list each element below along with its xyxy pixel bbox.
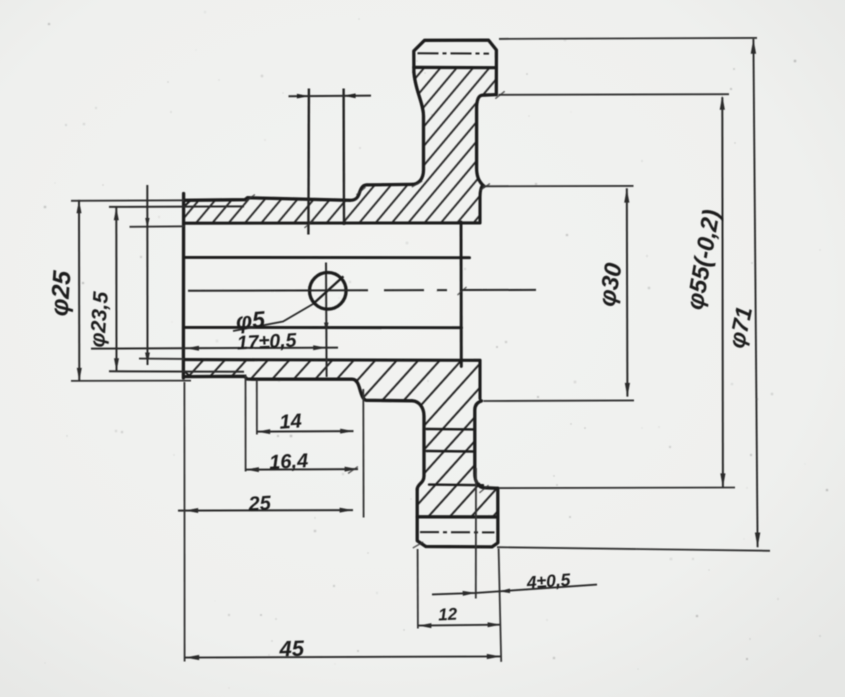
svg-text:12: 12 bbox=[438, 604, 458, 624]
bore end wall bbox=[460, 222, 463, 367]
dim line 12 bbox=[418, 624, 501, 627]
bore bottom extension to left bbox=[139, 358, 184, 360]
rim left face ext down bbox=[417, 549, 419, 629]
section hatching: upper wall, web and rim underside bbox=[184, 68, 496, 223]
hole centre line vertical bbox=[325, 263, 328, 378]
dia55 ext bottom bbox=[499, 487, 735, 490]
svg-text:4±0,5: 4±0,5 bbox=[525, 569, 571, 592]
lower web foot line bbox=[429, 483, 483, 486]
dim line dia25 bbox=[78, 200, 80, 381]
dim line 45 bbox=[184, 656, 501, 657]
lower web crossing line b bbox=[427, 450, 475, 453]
bore top line bbox=[184, 221, 480, 224]
radial hole left edge in wall bbox=[307, 89, 310, 235]
stray sketch tick marks bbox=[245, 91, 505, 548]
dim line bore bbox=[146, 185, 148, 365]
bore bottom line bbox=[184, 358, 480, 362]
dia55 shoulder face upper bbox=[477, 95, 497, 187]
upper rim pitch dash-dot bbox=[418, 52, 490, 54]
lower outer profile: thread dia, step, ramp bbox=[184, 376, 412, 401]
dim line 17+-0.5 bbox=[91, 348, 338, 349]
dim line dia30 bbox=[626, 188, 629, 396]
left end face of hub bbox=[182, 194, 186, 379]
slash through circle bbox=[313, 276, 343, 304]
upper rim outline with chamfers bbox=[414, 40, 497, 95]
thread minor line upper (dia 23.5) w/ extension bbox=[109, 205, 244, 208]
left face ext line down bbox=[183, 382, 185, 662]
dim line dia55 bbox=[721, 97, 724, 487]
svg-text:25: 25 bbox=[247, 492, 272, 515]
rim right face ext down bbox=[499, 549, 502, 662]
chamfer bottom-left bbox=[184, 371, 191, 377]
svg-text:φ25: φ25 bbox=[45, 269, 76, 317]
dia71 ext bottom (rim bottom prolongation) bbox=[497, 547, 770, 551]
dim line 16.4 bbox=[246, 468, 359, 471]
inner bore line lower bbox=[184, 326, 462, 329]
thread minor line lower (dia 23.5) w/ extension bbox=[109, 370, 244, 372]
dia55 shoulder face lower bbox=[475, 401, 498, 488]
ext line 14 left bbox=[256, 380, 258, 435]
upper rim band line bbox=[414, 66, 497, 69]
lower rim outline with chamfer bbox=[417, 488, 498, 547]
chamfer top-left bbox=[184, 200, 191, 207]
dim line dia71 bbox=[753, 39, 757, 547]
svg-text:φ5: φ5 bbox=[235, 306, 267, 334]
lower web crossing line a bbox=[427, 428, 475, 431]
svg-text:45: 45 bbox=[278, 636, 305, 662]
dim line 14 bbox=[257, 430, 354, 433]
dia71 ext top bbox=[499, 38, 757, 39]
lower web left edge with fillets bbox=[412, 401, 424, 490]
ext line 16.4 left bbox=[245, 375, 247, 472]
upper right wall face bbox=[480, 185, 483, 223]
svg-text:14: 14 bbox=[279, 410, 303, 433]
dia30 ext top bbox=[483, 185, 634, 187]
upper outer profile: thread dia, step, ramp to boss dia 30 bbox=[184, 184, 412, 200]
lower right wall face bbox=[478, 360, 481, 398]
svg-text:16,4: 16,4 bbox=[269, 450, 309, 474]
section hatching: lower wall, web and rim foot bbox=[184, 360, 498, 517]
upper web left edge with fillets bbox=[412, 72, 424, 184]
leader to dia5 text bbox=[233, 304, 313, 331]
dia25 extension top bbox=[71, 199, 184, 202]
hole rotated view circle dia5 bbox=[310, 273, 347, 310]
dia30 ext bottom bbox=[484, 399, 635, 402]
lower rim pitch dash-dot bbox=[420, 531, 495, 533]
dim line 25 bbox=[178, 509, 353, 512]
lower rim band line bbox=[417, 515, 498, 519]
dim line 4+-0.5 bbox=[432, 585, 597, 595]
ext line 4+-0.5 inner bbox=[475, 468, 477, 599]
main centre axis dash-dot bbox=[188, 289, 536, 292]
svg-text:φ23,5: φ23,5 bbox=[86, 291, 113, 348]
radial hole right edge in wall bbox=[342, 89, 345, 226]
hole dia dimension line top bbox=[289, 95, 372, 98]
shared right ext line (ramp) bbox=[362, 389, 364, 518]
bore top extension to left bbox=[130, 225, 185, 228]
dim line dia23.5 bbox=[115, 207, 117, 372]
dia25 extension bottom bbox=[71, 380, 191, 382]
inner bore line upper bbox=[184, 256, 470, 259]
dia55 ext top bbox=[499, 93, 730, 96]
